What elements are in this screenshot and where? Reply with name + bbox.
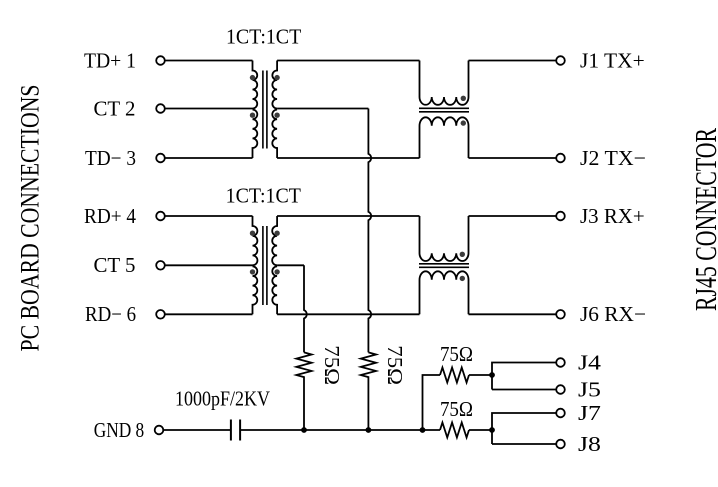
wire T1 secondary center tap [277, 108, 368, 110]
pin J2 terminal [556, 154, 565, 163]
svg-text:RD− 6: RD− 6 [85, 302, 136, 326]
pin J7 terminal [556, 409, 565, 418]
wire choke L2 to pin J3 [469, 215, 557, 217]
transformer T2 primary dot (top half) [250, 231, 255, 236]
junction dot J7/J8 branch [489, 427, 495, 433]
resistor R1 75ohm (vertical) [296, 352, 311, 430]
pin CT 5 terminal [156, 261, 165, 270]
wire branch to pin J4 [492, 363, 556, 390]
svg-text:J6 RX−: J6 RX− [580, 302, 646, 326]
pin TD+ 1 terminal [156, 56, 165, 65]
capacitor C1 [231, 420, 240, 441]
svg-text:GND 8: GND 8 [94, 418, 145, 442]
wire T2 center-tap drop to resistor R1 (with hop) [304, 265, 307, 352]
svg-text:1000pF/2KV: 1000pF/2KV [175, 387, 270, 411]
wire rail riser to resistor R3 [423, 375, 441, 430]
pin TD- 3 terminal [156, 154, 165, 163]
svg-text:J4: J4 [578, 351, 602, 375]
svg-text:PC BOARD CONNECTIONS: PC BOARD CONNECTIONS [16, 84, 45, 351]
wire T1 secondary top to choke L1 [277, 60, 419, 62]
junction dot R1/rail [301, 427, 307, 433]
svg-text:TD+ 1: TD+ 1 [84, 48, 136, 72]
junction dot R3 branch/rail [420, 427, 426, 433]
choke L2 top winding dot [460, 252, 465, 257]
choke L1 core [419, 108, 469, 112]
ground rail wire [240, 429, 440, 431]
svg-text:RD+ 4: RD+ 4 [84, 204, 136, 228]
transformer T2 secondary dot (top half) [274, 231, 279, 236]
pin RD- 6 terminal [156, 310, 165, 319]
svg-text:75Ω: 75Ω [383, 345, 407, 385]
transformer T1 primary winding [253, 61, 258, 159]
pin RD+ 4 terminal [156, 212, 165, 221]
svg-text:RJ45 CONNECTOR: RJ45 CONNECTOR [689, 127, 718, 311]
resistor R2 75ohm (vertical) [361, 352, 376, 430]
choke L2 core [419, 264, 469, 268]
pin CT 2 terminal [156, 104, 165, 113]
wire branch to pin J8 [492, 443, 556, 445]
svg-text:J5: J5 [578, 378, 601, 402]
transformer T1 core [263, 71, 267, 149]
wire pin4 to T2 primary top [165, 215, 252, 217]
svg-text:J7: J7 [578, 401, 601, 425]
svg-text:J3 RX+: J3 RX+ [580, 204, 645, 228]
choke L1 bottom winding dot [461, 120, 466, 125]
choke L2 bottom winding dot [460, 276, 465, 281]
side label: RJ45 CONNECTOR [689, 127, 718, 311]
wire pin3 to T1 primary bottom [165, 157, 252, 159]
transformer T2 primary dot (bottom half) [250, 269, 255, 274]
wire pin1 to T1 primary top [165, 60, 252, 62]
wire choke L2 to pin J6 [469, 313, 557, 315]
transformer T1 secondary dot (bottom half) [274, 113, 279, 118]
transformer T2 core [263, 226, 267, 305]
wire pin6 to T2 primary bottom [165, 313, 252, 315]
wire pin2 to T1 primary center tap [165, 108, 252, 110]
resistor R2 label 75ohm (rotated) [383, 345, 407, 385]
svg-text:CT 5: CT 5 [94, 253, 136, 277]
side label: PC BOARD CONNECTIONS [16, 84, 45, 351]
wire T2 secondary center tap [277, 264, 304, 266]
choke L2 top winding [420, 216, 469, 261]
pin J4 terminal [556, 358, 565, 367]
wire R4 to J7/J8 branch [469, 429, 492, 431]
transformer T1 secondary dot (top half) [274, 75, 279, 80]
transformer T2 secondary dot (bottom half) [274, 269, 279, 274]
svg-text:J1 TX+: J1 TX+ [580, 48, 645, 72]
svg-text:1CT:1CT: 1CT:1CT [226, 25, 301, 49]
svg-text:J2 TX−: J2 TX− [580, 146, 646, 170]
svg-text:75Ω: 75Ω [440, 397, 473, 421]
svg-text:75Ω: 75Ω [440, 342, 473, 366]
wire branch to pin J5 [492, 389, 556, 391]
wire R3 to J4/J5 branch [469, 374, 492, 376]
svg-text:75Ω: 75Ω [320, 345, 344, 385]
resistor R4 75ohm (horizontal, on rail) [440, 423, 469, 438]
wire T2 secondary top to choke L2 [277, 215, 419, 217]
pin J6 terminal [556, 310, 565, 319]
wire T2 secondary bottom to choke L2 [277, 313, 419, 315]
wire choke L1 to pin J2 [469, 157, 557, 159]
resistor R3 75ohm (horizontal) [440, 368, 469, 383]
transformer T2 secondary winding [272, 216, 277, 314]
transformer T1 secondary winding [272, 61, 277, 159]
wire T1 secondary bottom to choke L1 [277, 157, 419, 159]
choke L1 bottom winding [420, 117, 469, 158]
svg-text:J8: J8 [578, 432, 601, 456]
transformer T1 primary dot (bottom half) [250, 113, 255, 118]
choke L1 top winding dot [461, 96, 466, 101]
transformer T1 primary dot (top half) [250, 75, 255, 80]
wire pin5 to T2 primary center tap [165, 264, 252, 266]
wire choke L1 to pin J1 [469, 60, 557, 62]
choke L1 top winding [420, 61, 469, 105]
transformer T2 primary winding [253, 216, 258, 314]
pin J3 terminal [556, 212, 565, 221]
pin J8 terminal [556, 440, 565, 449]
junction dot R2/rail [366, 427, 372, 433]
wire branch to pin J7 [492, 413, 556, 444]
svg-text:TD− 3: TD− 3 [85, 146, 136, 170]
resistor R1 label 75ohm (rotated) [320, 345, 344, 385]
pin GND 8 terminal [155, 426, 164, 435]
svg-text:1CT:1CT: 1CT:1CT [226, 184, 301, 208]
svg-text:CT 2: CT 2 [94, 96, 136, 120]
choke L2 bottom winding [420, 271, 469, 314]
pin J1 terminal [556, 56, 565, 65]
pin J5 terminal [556, 385, 565, 394]
junction dot J4/J5 branch [489, 372, 495, 378]
wire T1 center-tap drop to resistor R2 (with hops) [368, 109, 371, 353]
wire pin8 to capacitor C1 [164, 429, 231, 431]
